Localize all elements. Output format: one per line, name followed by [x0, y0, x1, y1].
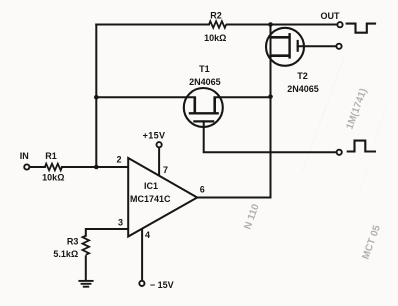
- wire output net from pin 6 up right rail: [197, 25, 270, 198]
- junction node at top rail: [268, 22, 273, 27]
- svg-text:MC1741C: MC1741C: [130, 194, 171, 204]
- wire T1 gate to lower-right terminal: [204, 121, 337, 152]
- terminal +15V: [157, 142, 162, 147]
- svg-text:IC1: IC1: [144, 181, 158, 191]
- junction node at T1 drain: [94, 95, 99, 100]
- ground: [78, 281, 93, 287]
- wire T1 drain lead: [96, 96, 195, 98]
- svg-text:+15V: +15V: [143, 131, 166, 141]
- junction node at pin 2 rail: [94, 165, 99, 170]
- terminal T2 gate: [336, 44, 341, 49]
- svg-text:3: 3: [118, 218, 123, 228]
- waveform positive pulse lower right: [347, 141, 376, 152]
- svg-text:2N4065: 2N4065: [287, 84, 319, 94]
- junction node at T1 source: [268, 94, 273, 99]
- terminal OUT: [337, 22, 342, 27]
- wire top rail left of R2: [96, 24, 209, 26]
- svg-text:4: 4: [145, 230, 150, 240]
- terminal -15V: [139, 281, 144, 286]
- svg-text:10kΩ: 10kΩ: [204, 33, 226, 43]
- svg-text:R3: R3: [67, 237, 79, 247]
- svg-text:2: 2: [116, 154, 121, 164]
- svg-text:T1: T1: [199, 64, 210, 74]
- svg-text:− 15V: − 15V: [150, 280, 174, 290]
- wire top rail right of R2: [227, 24, 338, 26]
- svg-text:T2: T2: [297, 71, 308, 81]
- wire pin 4 supply lead: [141, 229, 143, 281]
- wire pin 3 to R3: [86, 229, 128, 236]
- op-amp IC1: [128, 158, 197, 237]
- terminal IN: [24, 164, 29, 169]
- transistor T1: [184, 88, 223, 127]
- svg-text:2N4065: 2N4065: [189, 77, 221, 87]
- svg-text:10kΩ: 10kΩ: [42, 173, 64, 183]
- svg-text:R1: R1: [45, 151, 57, 161]
- svg-text:6: 6: [200, 185, 205, 195]
- svg-text:5.1kΩ: 5.1kΩ: [53, 249, 78, 259]
- wire left rail: [95, 25, 97, 168]
- resistor R3: [83, 236, 90, 255]
- wire T1 source lead: [215, 96, 271, 98]
- wire R3 to ground: [85, 256, 87, 280]
- svg-text:OUT: OUT: [321, 11, 341, 21]
- svg-text:IN: IN: [20, 151, 29, 161]
- wire pin 7 supply lead: [158, 147, 160, 177]
- svg-text:R2: R2: [210, 11, 222, 21]
- resistor R2: [209, 21, 226, 28]
- wire R1 to pin 2: [62, 166, 128, 168]
- waveform negative pulse at OUT: [346, 24, 377, 33]
- terminal lower right: [337, 150, 342, 155]
- wire IN to R1: [29, 166, 45, 168]
- wire T2 gate lead: [298, 45, 337, 47]
- resistor R1: [45, 164, 62, 171]
- transistor T2: [266, 28, 304, 66]
- svg-text:7: 7: [163, 165, 168, 175]
